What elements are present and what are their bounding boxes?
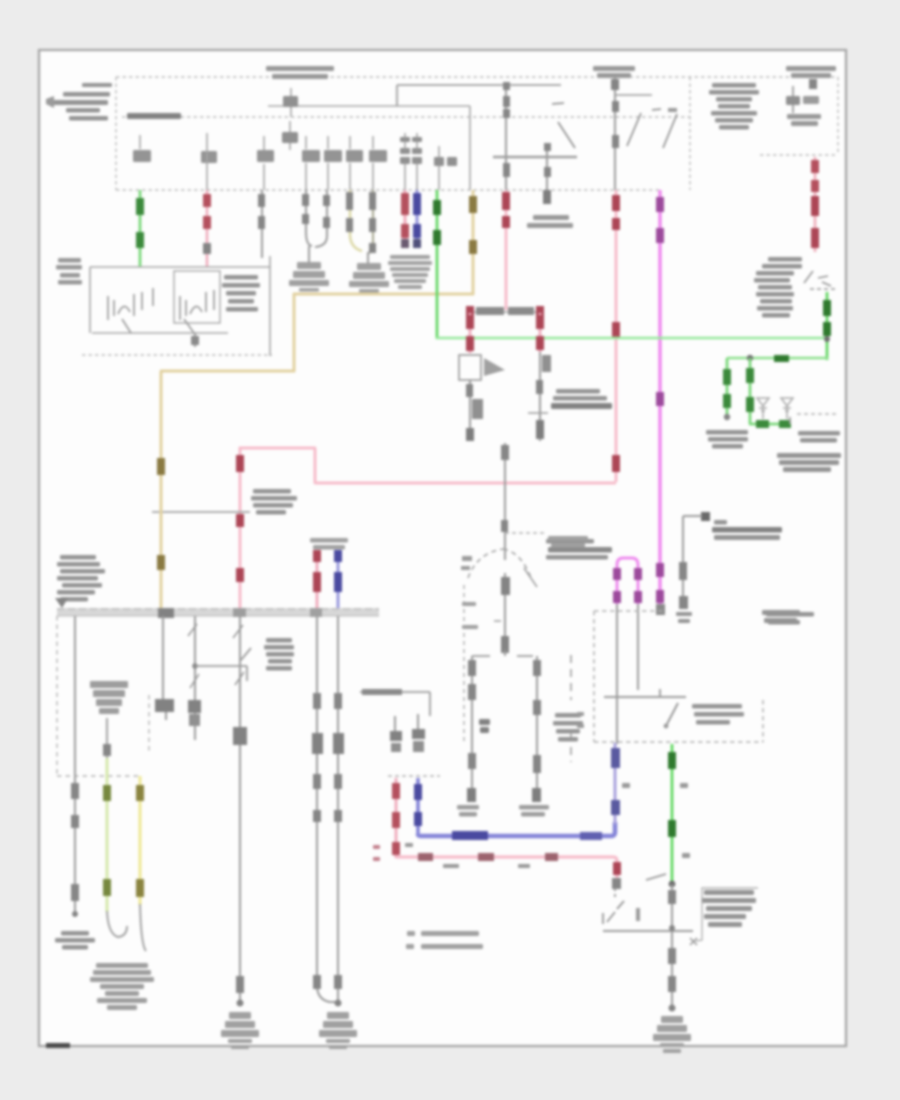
wire x506 (ignition feed) bbox=[503, 82, 510, 190]
wire x140 green (to relay box) bbox=[136, 190, 144, 267]
wire x195 pin bbox=[188, 616, 201, 740]
fuse cap x813 bbox=[809, 79, 817, 89]
key switch blades bbox=[627, 108, 677, 148]
automatic door lock label bbox=[706, 430, 748, 449]
under-hood fuse/relay box (dashed) bbox=[116, 77, 838, 190]
wire x437 green trunk bbox=[433, 190, 828, 339]
fuse 1 (x140) bbox=[133, 135, 151, 162]
radio node bbox=[679, 512, 710, 609]
key cylinder switch label bbox=[251, 489, 297, 515]
solenoid wire x472 bbox=[467, 656, 476, 802]
key interlock T split bbox=[472, 650, 533, 656]
relay pin x540 red bbox=[536, 313, 544, 352]
fuse 8 pair (x441/x452) bbox=[434, 146, 457, 190]
fuse 2 (x207) bbox=[201, 133, 217, 190]
dashed interlock cable bbox=[463, 585, 465, 742]
under-hood fuse/relay box label bbox=[266, 66, 334, 79]
G101 label bbox=[56, 258, 82, 285]
small pin texts bbox=[310, 538, 478, 629]
lavender wire band labels already in bus; green wire x672 bbox=[646, 744, 676, 887]
wire x506 pink (ignition to relay) bbox=[502, 190, 510, 310]
steering label bbox=[548, 536, 588, 548]
green drop x750 to knob diodes bbox=[746, 358, 791, 428]
trans range switch dashed box bbox=[594, 611, 763, 742]
driver door bus (connector strip) bbox=[57, 608, 379, 618]
fuse F-main (x293 upper) bbox=[283, 88, 298, 117]
door lock actuator icon bbox=[90, 681, 128, 714]
actuator wire yellow x140 bbox=[136, 776, 146, 951]
park pin switch bbox=[603, 888, 697, 945]
key interlock linkage (dashed arc) bbox=[461, 549, 537, 587]
ignition switch label bbox=[527, 215, 573, 228]
driver's door control unit label bbox=[55, 555, 105, 608]
ignition switch bus bbox=[493, 156, 577, 158]
lock switch branch bbox=[195, 648, 251, 681]
battery feed label (HOT AT ALL TIMES) bbox=[46, 83, 112, 121]
fuse icon x793 bbox=[786, 86, 821, 126]
knob switch label bbox=[798, 431, 840, 443]
fuse F2 (x290 lower) bbox=[282, 121, 298, 150]
fuse 5 (x328) bbox=[324, 136, 342, 190]
wire x207 red (to relay box) bbox=[203, 190, 211, 267]
wire pair to ground G202 bbox=[346, 190, 376, 263]
keyless access control unit label bbox=[709, 83, 759, 130]
fuse 3 (x265) bbox=[257, 136, 274, 190]
ground G502 (center) bbox=[319, 1012, 357, 1049]
MAIN FUSE text band on dashed separator bbox=[127, 113, 181, 119]
wire x660 magenta (to security unit) bbox=[656, 190, 665, 615]
magenta jumper (TCM loop) bbox=[613, 558, 642, 604]
solenoid wire x537 bbox=[532, 656, 541, 802]
ground G501 (left) bbox=[221, 1012, 259, 1049]
ignition switch feed line bbox=[397, 85, 577, 157]
gray continuations of jumper bbox=[617, 604, 638, 744]
interlock connector line bbox=[360, 689, 430, 716]
blue bus line bbox=[418, 743, 620, 840]
actuator wire green x107 bbox=[103, 718, 127, 937]
ground G202 bbox=[349, 263, 389, 293]
wire x405 red + x417 blue (entry light pins) bbox=[401, 190, 421, 248]
wire pair to ground G201 bbox=[302, 190, 330, 262]
key cylinder switch label bbox=[55, 931, 95, 950]
shift lock solenoid label bbox=[553, 713, 583, 742]
fuse 4 (x306) bbox=[302, 136, 320, 190]
pin texts left of box bbox=[577, 712, 584, 728]
radio label bbox=[676, 520, 782, 623]
blue wire x418 lower bbox=[414, 778, 422, 834]
door lock switch blade (right) bbox=[804, 271, 838, 289]
relay K2 coil/contacts bbox=[174, 271, 220, 333]
dashed link to knob switch bbox=[797, 413, 838, 415]
trans range sw label bbox=[692, 704, 744, 725]
wire x815 red (to right front door) bbox=[811, 157, 819, 252]
note label block (x410) bbox=[388, 255, 432, 289]
fuse 7 (x373) bbox=[369, 136, 387, 190]
gold wire bands bbox=[157, 196, 477, 570]
under-dash fuse/relay box bbox=[82, 256, 272, 356]
A/T gear position label bbox=[551, 389, 612, 409]
back-up relay label bbox=[766, 612, 814, 625]
wire x163 pin bbox=[155, 616, 174, 720]
trans range sw contacts bbox=[604, 689, 686, 728]
green drop x727 bbox=[723, 358, 731, 420]
small pin number texts bbox=[373, 783, 690, 868]
page corner tick bbox=[46, 1043, 70, 1048]
ground G201 bbox=[289, 262, 329, 292]
connector pins x395/x418 bbox=[390, 714, 425, 752]
long wires x317/x338 to ground bbox=[312, 616, 344, 1007]
pink bus line bbox=[396, 853, 621, 889]
legend bbox=[406, 931, 483, 949]
TCM label bbox=[546, 539, 612, 560]
pink run to x240 bbox=[239, 447, 616, 610]
knob switch diodes bbox=[757, 398, 793, 419]
door lock relay (center) bbox=[466, 306, 544, 315]
relay box label bbox=[222, 275, 260, 312]
fuse label No.23 (top right, x813) bbox=[786, 66, 836, 78]
ground G401 (right) bbox=[653, 1016, 691, 1053]
red wire x396 lower bbox=[392, 778, 400, 858]
window motor label stack bbox=[90, 963, 154, 1010]
door boundary dashed bbox=[57, 616, 149, 776]
wire x262 (to relay box) bbox=[258, 190, 265, 258]
wire x240 to ground bbox=[233, 616, 247, 1007]
ignition switch pole x547 bbox=[543, 143, 551, 204]
wire x540 lower bbox=[528, 352, 551, 441]
pink wire bands x240 bbox=[236, 455, 244, 582]
ignition switch blade bbox=[552, 103, 575, 148]
wire x615 pink (ignition to door lock timer) bbox=[612, 190, 620, 482]
steering lock dashed tap bbox=[505, 532, 545, 534]
wire x473 gold loop bbox=[160, 190, 474, 610]
blue pin wire x338 bbox=[334, 550, 342, 610]
x505 upper segment bbox=[501, 443, 509, 560]
right front door lock switch label bbox=[754, 257, 802, 318]
S label on solenoid bbox=[479, 719, 490, 733]
inner fuse row box (solid) bbox=[268, 106, 470, 190]
key cylinder wire x505 bbox=[494, 573, 510, 655]
relay pin x470 red bbox=[466, 313, 474, 353]
master switch label bbox=[264, 638, 294, 671]
data link connector label bbox=[762, 610, 800, 623]
relay symbol pins (x405/x417) bbox=[400, 133, 422, 190]
green wire to ground bbox=[668, 884, 676, 1012]
solenoid pin labels bbox=[457, 805, 549, 817]
fuse 6 (x350) bbox=[346, 136, 363, 190]
fuse No.1 stem x615 bbox=[611, 77, 652, 190]
circuit breaker symbol bbox=[459, 355, 505, 380]
wire below breaker x470 bbox=[466, 380, 483, 441]
interlock aux wire x571 bbox=[570, 655, 572, 762]
red pin wire x317 bbox=[313, 550, 321, 610]
multiplex unit wire x75 bbox=[71, 616, 79, 917]
right green branch bbox=[727, 292, 831, 362]
trans range switch callout bbox=[696, 888, 758, 941]
connector dashed line bbox=[388, 775, 440, 777]
relay output pin bbox=[191, 333, 199, 347]
fuse label No.1 (top, x615) bbox=[593, 66, 635, 78]
key cylinder branch line bbox=[152, 506, 250, 518]
relay K1 coil/contacts bbox=[108, 288, 153, 333]
left rear door label bbox=[777, 453, 841, 472]
